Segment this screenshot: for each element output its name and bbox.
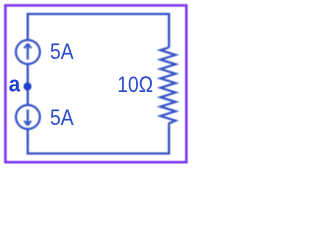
resistor R1 10 ohm (zigzag) — [160, 47, 175, 125]
wire: left rail segment between sources (node a region) — [27, 64, 29, 105]
wire: bottom conductor — [28, 125, 169, 153]
svg-text:a: a — [9, 71, 21, 96]
border frame (decorative) — [5, 5, 186, 162]
wire: top conductor from left rail to right rail — [28, 14, 169, 47]
current source I2 (bottom, 5A down) — [16, 105, 40, 129]
svg-text:5A: 5A — [50, 39, 74, 64]
current source I1 (top, 5A up) — [16, 40, 40, 64]
node a junction dot — [24, 83, 32, 91]
svg-text:10Ω: 10Ω — [117, 72, 153, 97]
svg-text:5A: 5A — [50, 105, 74, 130]
